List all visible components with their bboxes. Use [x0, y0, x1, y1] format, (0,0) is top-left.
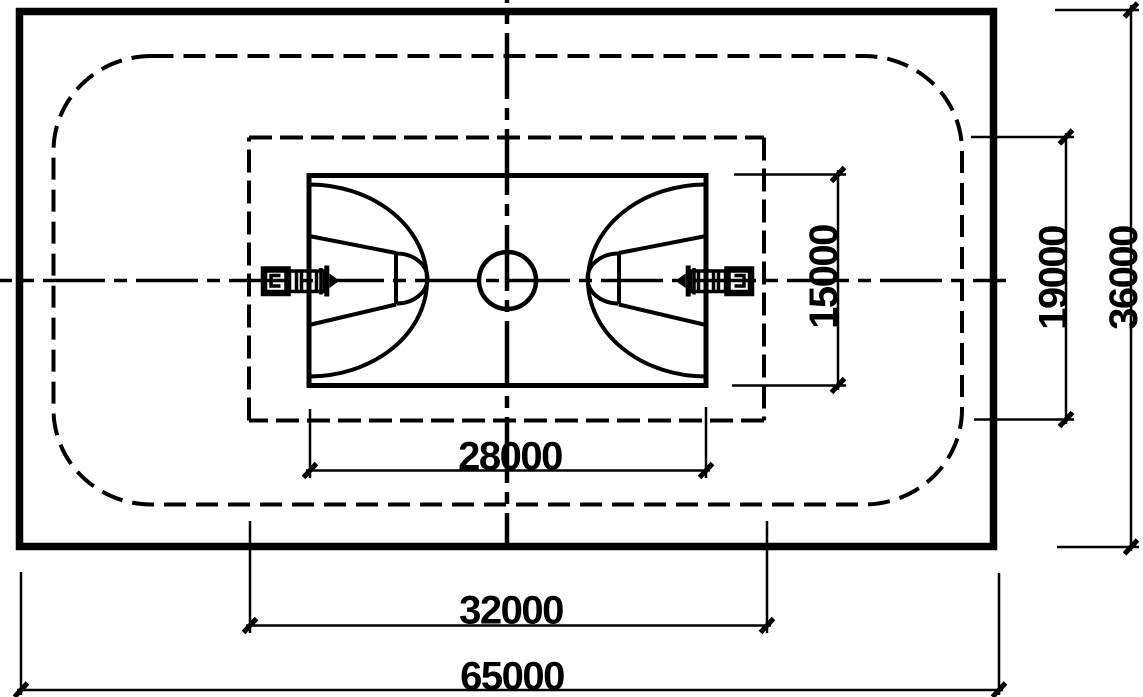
- dimension 36000 extension line bottom: [1057, 546, 1139, 549]
- left key lower line: [309, 305, 396, 326]
- dimension 15000 extension line top: [734, 173, 846, 176]
- right free-throw semicircle: [588, 254, 619, 304]
- left arm rung 3: [315, 271, 319, 292]
- dimension 19000 tick top: [1060, 130, 1073, 144]
- dimension 32000 extension line right: [766, 521, 769, 633]
- dimension 32000 extension line left: [249, 521, 252, 633]
- left key upper line: [309, 236, 396, 253]
- right free-throw line: [617, 252, 621, 304]
- right arm rung 4: [692, 268, 696, 295]
- left free-throw line: [394, 252, 398, 304]
- svg-text:36000: 36000: [1102, 226, 1143, 330]
- right base inner bracket: [735, 276, 745, 287]
- dimension 28000 line: [306, 469, 710, 472]
- dimension 36000 tick top: [1125, 3, 1138, 17]
- vertical centre line: [505, 0, 510, 549]
- dimension 65000 extension line right: [998, 573, 1001, 695]
- dimension 19000 tick bottom: [1060, 413, 1073, 427]
- dimension 36000 tick bottom: [1125, 540, 1138, 554]
- left basket base stand: [264, 270, 288, 294]
- dimension 15000 tick bottom: [832, 379, 845, 393]
- right basket arm frame: [691, 271, 726, 292]
- dimension 28000 tick right: [700, 464, 713, 478]
- left base inner bracket: [271, 276, 281, 287]
- dimension 36000 line: [1130, 5, 1133, 551]
- centre circle: [479, 252, 536, 309]
- dimension 32000 tick right: [761, 619, 774, 633]
- right backboard: [686, 266, 691, 297]
- left rim arrow: [330, 274, 340, 289]
- dimension 15000 tick top: [832, 168, 845, 182]
- right arm rung 2: [712, 271, 716, 292]
- dimension 19000 extension line bottom: [974, 418, 1074, 421]
- svg-text:15000: 15000: [802, 225, 846, 329]
- left arm rung 4: [319, 268, 323, 295]
- svg-text:65000: 65000: [460, 655, 564, 697]
- dimension 36000 extension line top: [1055, 9, 1139, 12]
- dimension 65000 tick right: [993, 683, 1006, 697]
- dimension 15000 extension line bottom: [732, 384, 846, 387]
- left backboard: [324, 266, 329, 297]
- dashed rounded fence rectangle: [54, 56, 963, 505]
- left free-throw semicircle: [397, 254, 428, 304]
- right key upper line: [619, 236, 706, 253]
- left arm rung 1: [295, 271, 299, 292]
- dimension 28000 extension line right: [705, 407, 708, 478]
- dimension 32000 tick left: [244, 619, 257, 633]
- dimension 65000 line: [17, 689, 1003, 692]
- dimension 32000 line: [246, 624, 771, 627]
- dimension 28000 extension line left: [309, 409, 312, 478]
- inner dashed safety-zone rectangle 32000x19000: [249, 138, 764, 421]
- outer site boundary rectangle 65000x36000: [20, 12, 994, 547]
- right three-point arc: [588, 185, 706, 377]
- left basket arm frame: [290, 271, 325, 292]
- left arm rung 2: [300, 271, 304, 292]
- right rim arrow: [676, 274, 686, 289]
- svg-text:32000: 32000: [459, 589, 563, 633]
- right basket base stand: [728, 270, 752, 294]
- left three-point arc: [309, 185, 427, 377]
- dimension 19000 extension line top: [971, 136, 1074, 139]
- svg-text:28000: 28000: [458, 435, 562, 479]
- dimension 28000 tick left: [304, 464, 317, 478]
- dimension 19000 line: [1065, 133, 1068, 424]
- dimension 65000 extension line left: [20, 572, 23, 695]
- court outline rectangle 28000x15000: [309, 176, 706, 386]
- right arm rung 3: [697, 271, 701, 292]
- right key lower line: [619, 305, 706, 326]
- svg-text:19000: 19000: [1032, 226, 1076, 330]
- dimension 15000 line: [837, 170, 840, 390]
- dimension 65000 tick left: [15, 683, 28, 697]
- horizontal centre line: [0, 279, 1006, 283]
- right arm rung 1: [717, 271, 721, 292]
